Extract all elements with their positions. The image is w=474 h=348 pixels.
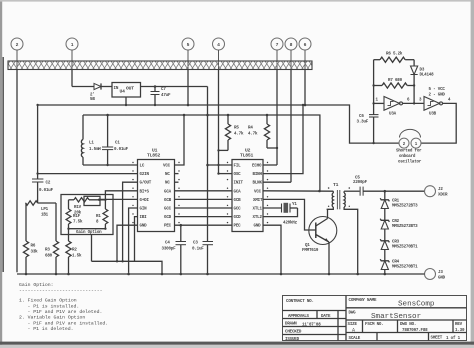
svg-text:Y1: Y1 (292, 203, 297, 207)
svg-text:DL4148: DL4148 (420, 74, 435, 78)
svg-text:BINH: BINH (253, 173, 263, 177)
svg-text:- P1 is deleted.: - P1 is deleted. (28, 326, 74, 332)
resistor R6b 33k (23, 241, 38, 274)
svg-text:- P1F and P1V are deleted.: - P1F and P1V are deleted. (28, 309, 103, 315)
svg-text:3.3uF: 3.3uF (357, 121, 369, 125)
svg-text:XDCR: XDCR (438, 194, 448, 198)
wire T1 secondary bottom down (344, 207, 358, 274)
wire U4 gnd (125, 97, 127, 105)
capacitor C3 (192, 242, 213, 275)
zener CR2 (380, 209, 418, 230)
inductor L1 (81, 115, 101, 165)
svg-text:CR1: CR1 (392, 200, 400, 204)
wire GCA bus (175, 190, 233, 192)
svg-text:0.1uF: 0.1uF (192, 248, 204, 252)
svg-text:GCA: GCA (164, 190, 172, 194)
svg-text:CR2: CR2 (392, 220, 400, 224)
svg-text:DRAWN: DRAWN (285, 323, 297, 327)
regulator U4 (112, 83, 141, 98)
svg-text:GND: GND (140, 225, 148, 229)
wire D3 vert to gate line (413, 86, 415, 104)
svg-text:TL852: TL852 (147, 153, 160, 159)
svg-text:T1: T1 (333, 182, 339, 188)
svg-text:onboard: onboard (399, 154, 416, 159)
zener CR1 (380, 191, 418, 208)
resistor R3 (45, 241, 59, 274)
svg-text:FSCM NO.: FSCM NO. (365, 323, 384, 327)
svg-text:1.30: 1.30 (455, 329, 465, 333)
IC U2 TL851 (232, 148, 263, 232)
IC U1 TL852 (138, 148, 175, 232)
svg-text:5: 5 (187, 42, 190, 48)
diode D3 (411, 60, 435, 86)
svg-text:-----------------------------: ----------------------------- (19, 289, 103, 294)
wire PEC bus (175, 224, 233, 226)
svg-text:DWG NO.: DWG NO. (400, 323, 416, 327)
transformer T1 (328, 182, 350, 209)
svg-text:G2IN: G2IN (140, 173, 150, 177)
svg-text:GCD: GCD (234, 216, 242, 220)
svg-text:D3: D3 (420, 69, 425, 73)
connector bubble 5 (182, 38, 194, 70)
resistor R1F (66, 200, 83, 229)
svg-text:C1: C1 (115, 142, 120, 146)
gain box bottom wire (69, 228, 106, 230)
wire VCC row to T1 (263, 190, 333, 192)
jumper circles (399, 129, 421, 148)
svg-text:REV: REV (455, 323, 463, 327)
svg-text:Gain Option:: Gain Option: (19, 282, 54, 288)
resistor R4 (248, 115, 270, 148)
svg-text:GCB: GCB (164, 199, 172, 203)
transistor Q1 (302, 217, 337, 254)
svg-text:NC: NC (165, 182, 170, 186)
U2 pin ticks (227, 162, 268, 224)
svg-text:C7: C7 (161, 88, 166, 92)
svg-text:MMSZ5272BT3: MMSZ5272BT3 (392, 205, 418, 209)
wire U1 VCC up to rail (175, 115, 185, 165)
gain option box (61, 195, 113, 236)
svg-text:1.5k: 1.5k (72, 254, 82, 259)
svg-text:DATE: DATE (321, 315, 331, 319)
svg-text:SHEET: SHEET (431, 337, 443, 341)
svg-text:J3: J3 (438, 271, 443, 275)
svg-text:1 of 1: 1 of 1 (446, 336, 461, 341)
svg-text:G/OUT: G/OUT (140, 181, 152, 186)
wire Vin: bubble1 down to diode line (71, 70, 73, 87)
svg-text:2. Variable Gain Option: 2. Variable Gain Option (19, 315, 85, 321)
svg-text:IN: IN (114, 87, 119, 91)
svg-text:oscillator: oscillator (398, 160, 422, 165)
svg-text:- P1 is installed.: - P1 is installed. (28, 303, 80, 309)
svg-text:ISSUED: ISSUED (285, 338, 300, 342)
gain box small rect (84, 196, 100, 205)
svg-text:IBI: IBI (140, 216, 148, 220)
svg-text:LC: LC (140, 165, 145, 169)
svg-text:SensComp: SensComp (398, 301, 435, 309)
wire XMIT to Q1 base (263, 199, 316, 230)
svg-text:U3B: U3B (429, 113, 437, 117)
capacitor C5 (353, 177, 368, 196)
wire bubble5 down (187, 70, 189, 106)
connector bubble 4 (213, 38, 225, 70)
capacitor C1 (102, 115, 129, 165)
svg-text:GIN: GIN (140, 208, 148, 212)
wire ground rail y=105 (38, 105, 399, 143)
bottom ground rail (17, 273, 425, 275)
wire tank top rail joins pullup rail (83, 114, 208, 116)
diode D2 (72, 83, 112, 102)
svg-text:XTL2: XTL2 (253, 216, 263, 220)
svg-text:FMMT619: FMMT619 (302, 249, 319, 253)
svg-text:PEC: PEC (164, 225, 172, 229)
capacitor C2 (32, 105, 54, 203)
svg-text:L1: L1 (89, 142, 94, 146)
svg-text:5 - VCC: 5 - VCC (429, 88, 446, 92)
wire bubble4 INIT down (218, 70, 220, 174)
svg-text:DWG: DWG (349, 312, 357, 316)
svg-text:J2: J2 (438, 188, 443, 192)
wire OSC to INIT vert (219, 173, 233, 175)
connector hatched bar (8, 61, 312, 70)
svg-text:R6: R6 (31, 245, 36, 249)
svg-text:G+DI: G+DI (140, 199, 150, 203)
svg-text:C6: C6 (359, 115, 364, 119)
scan bottom dark line (0, 342, 474, 345)
node bubble5 joins (187, 104, 190, 107)
connector bubble 2 (11, 38, 23, 70)
wire R1 left chain down (25, 203, 27, 241)
svg-text:GCD: GCD (164, 216, 172, 220)
wire R5 bottom to INIT vert (219, 149, 229, 151)
wire bubble6 down to osc line (304, 70, 306, 106)
wire GCC bus (175, 207, 233, 209)
svg-text:SIZE: SIZE (348, 323, 358, 327)
connector J2 (425, 186, 448, 198)
svg-text:VCC: VCC (163, 165, 171, 169)
resistor R1 (26, 201, 56, 218)
wire U2 GND down (263, 225, 281, 274)
svg-text:ECHO: ECHO (252, 165, 262, 169)
wire T1 primary bottom to Q1 collector (327, 207, 334, 209)
resistor R6 (380, 52, 414, 63)
wire ECHO up to bubble7 (276, 70, 278, 166)
svg-text:2: 2 (16, 42, 19, 48)
svg-text:3300pF: 3300pF (162, 248, 177, 252)
svg-text:CHECKED: CHECKED (285, 331, 302, 335)
title block (283, 296, 467, 343)
svg-text:C4: C4 (165, 242, 170, 246)
svg-text:MMSZ5270BT1: MMSZ5270BT1 (392, 246, 418, 250)
capacitor C4 (162, 225, 187, 274)
resistor R2 (66, 229, 82, 274)
svg-text:VCC: VCC (254, 190, 262, 194)
svg-text:GCC: GCC (164, 208, 172, 212)
resistor R1V on gain box top wire (69, 198, 106, 216)
wire +5 vertical x=207.5 (207, 87, 209, 242)
zener CR3 (380, 229, 418, 250)
svg-text:2': 2' (90, 93, 95, 98)
svg-text:C5: C5 (355, 177, 360, 181)
svg-text:R5: R5 (234, 127, 239, 131)
resistor R1G (96, 200, 108, 229)
svg-text:0.01uF: 0.01uF (114, 148, 129, 152)
wire Q1 collector vert (327, 209, 329, 218)
oscillator R6 top wire (374, 59, 380, 61)
svg-text:FIL: FIL (234, 165, 242, 169)
svg-text:TL851: TL851 (240, 153, 253, 159)
svg-text:47uF: 47uF (161, 94, 171, 98)
svg-text:2200pF: 2200pF (353, 181, 368, 185)
svg-text:BLNK: BLNK (253, 182, 263, 186)
wire GCB bus (175, 198, 233, 200)
wire BLNK to vert (263, 181, 291, 183)
svg-text:0.01uF: 0.01uF (39, 189, 54, 193)
capacitor C6 (357, 103, 379, 144)
wire GIN down (129, 208, 138, 272)
svg-text:Q1: Q1 (305, 244, 310, 248)
wire gain box bottom to jog (91, 235, 93, 262)
wire +5 out rail (141, 86, 208, 88)
node bubble6 line joins (304, 104, 307, 107)
node pullup rail left (206, 114, 209, 117)
svg-text:SCALE: SCALE (349, 337, 361, 341)
svg-text:R2: R2 (72, 249, 77, 253)
svg-text:MMSZ5272BT3: MMSZ5272BT3 (392, 225, 418, 229)
svg-text:U4: U4 (120, 89, 126, 95)
gain option note (19, 282, 108, 332)
svg-text:C3: C3 (193, 242, 198, 246)
svg-text:GND: GND (438, 277, 446, 281)
svg-text:1B1: 1B1 (41, 214, 49, 218)
left sheet edge line (2, 57, 4, 272)
svg-text:CONTRACT NO.: CONTRACT NO. (286, 300, 314, 304)
capacitor C7 (151, 87, 171, 106)
wire R3 top vert (55, 203, 57, 241)
wire BINH to vert joins osc rail (263, 105, 303, 174)
svg-text:A: A (352, 328, 355, 334)
svg-text:7: 7 (276, 42, 279, 48)
svg-text:4: 4 (217, 42, 220, 48)
wire T1 secondary top to C5 (344, 190, 360, 192)
svg-text:INIT: INIT (234, 182, 244, 186)
svg-text:6: 6 (304, 42, 307, 48)
node C7 junction (154, 85, 157, 88)
svg-text:GCA: GCA (234, 190, 242, 194)
svg-text:420kHz: 420kHz (283, 221, 298, 226)
svg-text:C2: C2 (46, 182, 51, 186)
node R4 top (266, 114, 269, 117)
scan edge right (471, 0, 474, 348)
svg-text:OUT: OUT (126, 86, 134, 92)
zener CR4 (380, 250, 418, 275)
wire R4 bottom to ECHO vert (267, 147, 277, 149)
resistor R5 (225, 115, 244, 150)
wire LC row (83, 164, 138, 166)
svg-text:33k: 33k (31, 250, 39, 255)
node C7 gnd (154, 104, 156, 106)
svg-text:U3A: U3A (389, 113, 397, 117)
wire G/OUT down (123, 182, 138, 261)
svg-text:XTL1: XTL1 (253, 208, 263, 212)
node R5 top (227, 114, 230, 117)
svg-text:R1V: R1V (74, 206, 82, 210)
scan edge left (0, 0, 2, 348)
svg-text:XMIT: XMIT (253, 199, 263, 203)
svg-text:2 - GND: 2 - GND (429, 94, 446, 98)
wire +5 pullup rail y=115 extends to T1 feed (208, 115, 320, 191)
connector bubble 8 (285, 38, 297, 70)
svg-text:R7 680: R7 680 (388, 79, 403, 83)
crystal Y1 (282, 203, 298, 226)
svg-text:- P1F and P1V are installed.: - P1F and P1V are installed. (28, 320, 109, 326)
svg-text:4.7k: 4.7k (234, 132, 244, 137)
connector J3 (425, 269, 446, 281)
svg-text:NC: NC (165, 173, 170, 177)
svg-text:GCB: GCB (234, 199, 242, 203)
wire XTL1 to crystal (263, 207, 281, 209)
connector bubble 1 (66, 38, 78, 70)
svg-text:Shorted for: Shorted for (396, 149, 422, 154)
wire U3A out to U3B in (403, 102, 425, 104)
svg-text:CR4: CR4 (392, 261, 400, 265)
svg-text:BI+S: BI+S (140, 190, 150, 194)
wire FIL to INIT vert and +5 vert (208, 164, 233, 166)
scan edge top (0, 0, 474, 2)
svg-text:7.5k: 7.5k (73, 220, 83, 225)
node C4 tap (180, 224, 183, 227)
svg-text:8: 8 (290, 42, 293, 48)
inverter U3A (374, 97, 403, 117)
svg-text:R4: R4 (248, 127, 253, 131)
node U4 gnd (125, 104, 127, 106)
wire U3B out down to jumper line (421, 103, 456, 143)
wire BLNK up to bubble8 (290, 70, 292, 183)
svg-text:7887097.F88: 7887097.F88 (402, 329, 428, 333)
svg-text:GCC: GCC (234, 208, 242, 212)
resistor R7 (374, 79, 415, 88)
svg-text:SmartSensor: SmartSensor (371, 313, 421, 321)
wire crystal loop to XTL2 (263, 208, 298, 217)
svg-text:1.5mH: 1.5mH (89, 148, 101, 152)
svg-text:Gain Option: Gain Option (76, 230, 102, 235)
scan bottom gray (0, 345, 474, 348)
svg-text:APPROVALS: APPROVALS (288, 315, 310, 319)
svg-text:CR3: CR3 (392, 241, 400, 245)
svg-text:MMSZ5270BT1: MMSZ5270BT1 (392, 266, 418, 270)
U1 NC stubs (175, 173, 179, 175)
wire U1 GND down (117, 225, 138, 261)
svg-text:R1F: R1F (73, 215, 81, 219)
wire C5 to J2 (363, 190, 424, 192)
svg-text:4.7k: 4.7k (248, 132, 258, 137)
wire GCD bus (175, 216, 233, 218)
svg-text:11'07'08: 11'07'08 (302, 323, 321, 328)
wire IBI down (135, 217, 138, 262)
svg-text:LP1: LP1 (41, 208, 49, 212)
ground jog rail y=261 (92, 261, 163, 274)
svg-text:1. Fixed Gain Option: 1. Fixed Gain Option (19, 298, 77, 304)
U1 pin ticks (132, 162, 179, 224)
wire Q1 emitter down (328, 242, 330, 274)
connector bubble 6 (299, 38, 311, 70)
svg-text:R1: R1 (96, 215, 101, 219)
svg-text:R6 5.2k: R6 5.2k (386, 52, 403, 57)
svg-text:1: 1 (71, 42, 74, 48)
svg-text:R3: R3 (45, 249, 50, 253)
inverter U3B (424, 97, 451, 117)
wire BI+S into box (105, 191, 137, 200)
wire G2IN left (38, 173, 138, 175)
svg-text:5B: 5B (90, 98, 95, 102)
wire GND left: bubble2 down to bottom rail (16, 70, 18, 273)
svg-text:OSC: OSC (234, 173, 242, 177)
svg-text:COMPANY NAME: COMPANY NAME (349, 299, 377, 303)
wire ECHO to vert (263, 164, 277, 166)
svg-text:PEC: PEC (234, 225, 242, 229)
wire G+DI into box (99, 198, 137, 200)
connector bubble 7 (271, 38, 283, 70)
wire osc left vert (373, 60, 375, 104)
svg-text:GND: GND (254, 225, 262, 229)
svg-text:680: 680 (45, 255, 53, 259)
